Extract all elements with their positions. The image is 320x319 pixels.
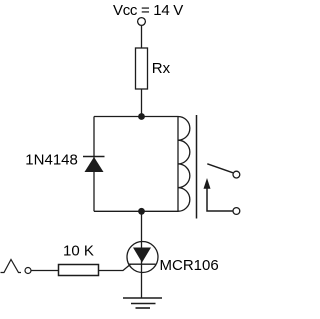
actuation arrow	[204, 178, 211, 189]
wire input to 10K	[31, 270, 59, 272]
svg-text:10 K: 10 K	[63, 243, 94, 260]
resistor R 10K	[59, 265, 99, 276]
wire bottom edge of loop	[94, 210, 178, 212]
wire left edge (diode branch)	[93, 117, 95, 212]
resistor Rx	[136, 48, 148, 89]
thyristor cathode bar	[129, 263, 156, 265]
wire Rx to node A	[141, 89, 143, 117]
diode D1 1N4148 (cathode bar)	[83, 156, 105, 158]
svg-text:Rx: Rx	[152, 60, 171, 77]
svg-text:Vcc = 14 V: Vcc = 14 V	[113, 2, 183, 19]
ground	[123, 298, 162, 308]
relay coil L1 (right edge with 4 arcs)	[178, 117, 190, 212]
wire contact bottom	[207, 189, 233, 212]
gate wire	[99, 264, 131, 270]
svg-text:MCR106: MCR106	[160, 257, 219, 274]
relay contact arm	[207, 164, 233, 173]
wire node B to SCR	[141, 211, 143, 247]
terminal input	[25, 268, 31, 274]
terminal contact top	[233, 171, 240, 178]
node A (top junction)	[138, 113, 145, 120]
input pulse symbol	[1, 260, 22, 273]
thyristor triangle	[133, 248, 151, 263]
node B (bottom junction)	[138, 208, 145, 215]
relay core bar	[196, 115, 198, 219]
terminal Vcc	[138, 18, 146, 26]
wire Vcc to Rx	[141, 26, 143, 49]
wire top edge of loop	[94, 116, 178, 118]
wire through SCR (anode-cathode axis)	[141, 242, 143, 298]
diode D1 1N4148 (triangle)	[85, 157, 104, 172]
thyristor Q1 MCR106 (body circle)	[127, 242, 158, 273]
svg-text:1N4148: 1N4148	[25, 151, 78, 168]
terminal contact bottom	[233, 208, 240, 215]
